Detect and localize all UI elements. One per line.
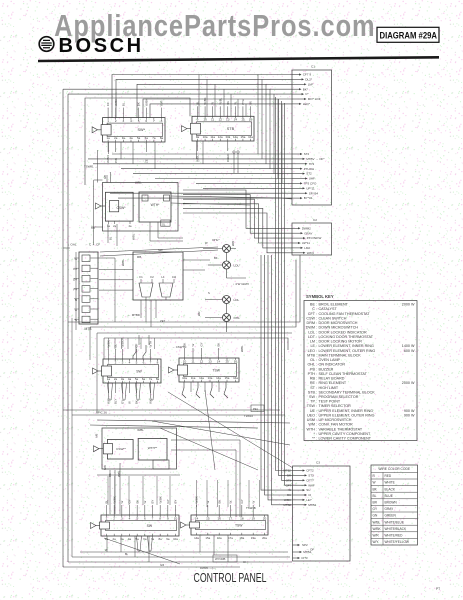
svg-text:BOSCH: BOSCH	[59, 35, 144, 57]
svg-text:6a: 6a	[142, 377, 146, 381]
svg-text:PT: PT	[436, 587, 440, 591]
svg-text:W: W	[229, 501, 233, 504]
svg-text:MTB4: MTB4	[303, 550, 311, 554]
svg-text:SU: SU	[306, 488, 310, 492]
svg-text:6: 6	[144, 516, 146, 520]
svg-text:WM :: WM :	[308, 423, 317, 427]
svg-text:323: 323	[160, 564, 165, 567]
svg-text:↓ OAL: ↓ OAL	[68, 243, 77, 247]
svg-text:SW*: SW*	[137, 128, 145, 132]
svg-text:3a: 3a	[122, 136, 126, 140]
svg-text:GRAY: GRAY	[304, 231, 312, 235]
svg-text:ST2: ST2	[304, 152, 310, 156]
svg-text:TSW :: TSW :	[307, 404, 317, 408]
svg-text:UPPER ELEMENT, INNER RING: UPPER ELEMENT, INNER RING	[319, 409, 374, 413]
svg-text:C3: C3	[316, 461, 320, 465]
svg-text:2a: 2a	[114, 136, 118, 140]
svg-text:BK: BK	[226, 101, 230, 105]
svg-text:WTH*: WTH*	[151, 203, 161, 207]
svg-text:MTB :: MTB :	[307, 353, 317, 357]
svg-text:OHL :: OHL :	[308, 363, 318, 367]
svg-text:2a: 2a	[113, 537, 117, 541]
svg-text:SECONDARY TERMINAL BLOCK: SECONDARY TERMINAL BLOCK	[319, 390, 376, 394]
svg-text:14: 14	[234, 118, 238, 122]
svg-text:BE :: BE :	[310, 303, 317, 307]
svg-text:C2: C2	[313, 218, 317, 222]
svg-text:W/BK: W/BK	[158, 496, 162, 503]
svg-text:8a: 8a	[160, 136, 164, 140]
svg-text:SP2: SP2	[302, 543, 308, 547]
svg-text:W/BL: W/BL	[132, 233, 136, 240]
svg-text:TEST POINT: TEST POINT	[319, 400, 341, 404]
svg-text:4: 4	[130, 119, 132, 123]
svg-text:RB :: RB :	[310, 377, 317, 381]
svg-text:D4: D4	[73, 277, 77, 281]
svg-text:GY: GY	[200, 342, 204, 346]
svg-text:BROIL ELEMENT: BROIL ELEMENT	[319, 303, 349, 307]
svg-text:OVEN LAMP: OVEN LAMP	[319, 358, 341, 362]
svg-text:15a: 15a	[241, 135, 246, 139]
svg-text:DOOR LOCKED INDICATOR: DOOR LOCKED INDICATOR	[319, 330, 368, 334]
svg-text:W: W	[373, 481, 376, 485]
svg-text:9: 9	[167, 516, 169, 520]
svg-text:4: 4	[129, 360, 131, 364]
svg-text:W/BL: W/BL	[137, 428, 144, 432]
svg-text:BK: BK	[217, 500, 221, 504]
svg-text:13: 13	[226, 118, 230, 122]
svg-text:SP/ B4: SP/ B4	[309, 191, 319, 195]
svg-text:600 W: 600 W	[404, 349, 415, 353]
svg-text:LE?: LE?	[306, 498, 312, 502]
svg-text:W/R: W/R	[373, 534, 380, 538]
svg-text:19: 19	[251, 516, 255, 520]
svg-text:C1: C1	[311, 65, 315, 69]
svg-text:MO* LDF: MO* LDF	[308, 97, 321, 101]
svg-text:S: S	[208, 291, 210, 295]
svg-text:W/R: W/R	[231, 241, 235, 246]
svg-text:1: 1	[106, 516, 108, 520]
svg-text:BUZZER: BUZZER	[319, 367, 334, 371]
svg-text:16a: 16a	[217, 536, 222, 540]
svg-text:LEO :: LEO :	[308, 349, 317, 353]
svg-text:6a: 6a	[145, 136, 149, 140]
svg-text:19a: 19a	[251, 536, 256, 540]
svg-text:DWM :: DWM :	[306, 326, 317, 330]
svg-text:ZE?: ZE?	[160, 319, 166, 323]
svg-text:10a: 10a	[182, 376, 187, 380]
svg-text:BK: BK	[135, 500, 139, 504]
svg-text:SW: SW	[158, 248, 163, 252]
svg-text:HIGH LIMIT: HIGH LIMIT	[319, 386, 339, 390]
svg-text:BLACK: BLACK	[385, 487, 396, 491]
svg-text:18: 18	[240, 516, 244, 520]
svg-text:4a: 4a	[129, 136, 133, 140]
svg-text:W/R: W/R	[103, 465, 107, 470]
svg-text:CSW*: CSW*	[117, 206, 127, 210]
svg-text:UPPER ELEMENT, OUTER RING: UPPER ELEMENT, OUTER RING	[319, 413, 375, 417]
svg-text:TP :: TP :	[310, 400, 317, 404]
svg-text:MTB2: MTB2	[308, 503, 316, 507]
svg-text:LOWER CAVITY COMPONENT: LOWER CAVITY COMPONENT	[319, 437, 372, 441]
svg-text:11: 11	[211, 118, 214, 122]
svg-text:WTH :: WTH :	[307, 427, 317, 431]
svg-text:BR: BR	[373, 501, 378, 505]
svg-text:LDL*: LDL*	[234, 263, 242, 267]
svg-text:W: W	[233, 102, 237, 105]
svg-text:W/BL: W/BL	[196, 155, 200, 162]
svg-text:BL: BL	[121, 102, 125, 106]
svg-text:20a: 20a	[262, 536, 267, 540]
svg-text:7a: 7a	[151, 537, 155, 541]
svg-text:BLUE: BLUE	[385, 494, 393, 498]
svg-text:CI: CI	[308, 493, 311, 497]
svg-text:BK: BK	[217, 343, 221, 347]
svg-text:W/BL: W/BL	[117, 470, 121, 477]
svg-text:11: 11	[191, 359, 194, 363]
svg-text:LDL :: LDL :	[308, 330, 317, 334]
svg-text:10: 10	[183, 359, 187, 363]
svg-text:T2W10: T2W10	[244, 414, 253, 418]
svg-text:LOWER ELEMENT, OUTER RING: LOWER ELEMENT, OUTER RING	[319, 349, 376, 353]
svg-text:W/BK: W/BK	[112, 496, 116, 503]
svg-text:2000 W: 2000 W	[402, 381, 415, 385]
svg-text:4a: 4a	[128, 377, 132, 381]
svg-text:WYCRB: WYCRB	[215, 557, 226, 561]
svg-text:BY: BY	[151, 500, 155, 504]
svg-text:ST2: ST2	[306, 172, 312, 176]
svg-text:W/BL: W/BL	[121, 259, 125, 266]
svg-text:SW :: SW :	[309, 395, 317, 399]
svg-text:RB: RB	[137, 255, 141, 259]
svg-text:* :: * :	[314, 432, 317, 436]
svg-text:CO: CO	[91, 226, 95, 230]
svg-text:SW: SW	[147, 524, 153, 528]
svg-text:TIMER SELECTOR: TIMER SELECTOR	[319, 404, 352, 408]
svg-text:GY: GY	[240, 499, 244, 503]
svg-text:DOWN MICROSWITCH: DOWN MICROSWITCH	[319, 326, 359, 330]
svg-text:4a: 4a	[128, 537, 132, 541]
svg-text:W/BN: W/BN	[106, 155, 110, 163]
svg-text:16: 16	[217, 516, 221, 520]
svg-text:BK*: BK*	[303, 87, 309, 91]
svg-text:7a: 7a	[152, 136, 156, 140]
svg-text:GY: GY	[121, 400, 125, 404]
svg-text:CH: CH	[172, 275, 176, 279]
svg-text:17: 17	[229, 516, 233, 520]
svg-text:UZ*11: UZ*11	[302, 241, 311, 245]
svg-text:5: 5	[136, 360, 138, 364]
svg-text:COOLING FAN THERMOSTAT: COOLING FAN THERMOSTAT	[319, 312, 371, 316]
svg-text:WIRE COLOR CODE: WIRE COLOR CODE	[378, 467, 410, 471]
svg-text:10: 10	[203, 118, 207, 122]
svg-text:MTB: MTB	[85, 327, 93, 331]
svg-text:F2: F2	[73, 267, 77, 271]
svg-text:2: 2	[115, 360, 117, 364]
svg-text:LM2: LM2	[304, 246, 310, 250]
svg-text:W: W	[191, 344, 195, 347]
svg-text:← MTBD: ← MTBD	[128, 313, 140, 317]
svg-text:4: 4	[129, 516, 131, 520]
svg-text:WHITE/BLACK: WHITE/BLACK	[385, 527, 407, 531]
svg-text:BL: BL	[109, 236, 113, 240]
svg-text:CI?3: CI?3	[301, 556, 308, 560]
svg-text:CATALYST: CATALYST	[319, 307, 338, 311]
svg-text:9a: 9a	[166, 537, 170, 541]
svg-text:W: W	[120, 501, 124, 504]
svg-text:16: 16	[249, 118, 253, 122]
svg-text:GREEN: GREEN	[385, 514, 397, 518]
svg-text:7: 7	[152, 516, 154, 520]
svg-text:→ CSWTH: → CSWTH	[172, 345, 186, 349]
svg-text:2: 2	[113, 516, 115, 520]
svg-text:CF: CF	[135, 343, 139, 347]
svg-text:W/BL: W/BL	[373, 520, 381, 524]
svg-text:MTBV → OF*: MTBV → OF*	[306, 157, 325, 161]
svg-text:1: 1	[107, 119, 109, 123]
svg-text:1a: 1a	[106, 136, 110, 140]
svg-text:LE :: LE :	[310, 344, 317, 348]
svg-text:7: 7	[153, 119, 155, 123]
svg-text:W: W	[211, 102, 215, 105]
svg-text:9: 9	[197, 118, 199, 122]
svg-text:3: 3	[122, 119, 124, 123]
svg-text:10a: 10a	[173, 537, 178, 541]
svg-text:DOOR MICROSWITCH: DOOR MICROSWITCH	[319, 321, 358, 325]
svg-text:LDT :: LDT :	[308, 335, 317, 339]
svg-text:10a: 10a	[203, 135, 208, 139]
svg-text:VARIABLE THERMOSTAT: VARIABLE THERMOSTAT	[319, 427, 363, 431]
svg-text:20: 20	[263, 516, 267, 520]
svg-text:CFT :: CFT :	[308, 312, 317, 316]
svg-text:UP*11: UP*11	[306, 186, 315, 190]
svg-text:PB :: PB :	[310, 367, 317, 371]
svg-text:17a: 17a	[228, 536, 233, 540]
svg-text:4/B: 4/B	[103, 175, 107, 179]
svg-text:W: W	[251, 501, 255, 504]
svg-text:UHF: UHF	[309, 177, 315, 181]
svg-text:LM*: LM*	[308, 82, 314, 86]
svg-text:WHITE/YELLOW: WHITE/YELLOW	[385, 540, 409, 544]
svg-text:PEL: PEL	[253, 407, 259, 411]
svg-text:BLY: BLY	[114, 399, 118, 404]
svg-text:GN: GN	[373, 514, 378, 518]
svg-text:ON INDICATOR: ON INDICATOR	[319, 363, 346, 367]
svg-text:RED: RED	[385, 474, 392, 478]
svg-text:W/BL: W/BL	[240, 345, 244, 352]
svg-text:12: 12	[218, 118, 222, 122]
svg-text:W/C: W/C	[149, 398, 153, 404]
svg-text:WHITE/RED: WHITE/RED	[385, 534, 404, 538]
svg-text:CF: CF	[106, 102, 110, 106]
svg-text:W/F3: W/F3	[307, 251, 314, 255]
svg-text:BK: BK	[137, 102, 141, 106]
svg-text:TSW: TSW	[235, 523, 243, 527]
svg-text:1a: 1a	[107, 377, 111, 381]
svg-text:LED*: LED*	[303, 102, 311, 106]
svg-text:GRAY: GRAY	[385, 507, 395, 511]
svg-text:3: 3	[122, 360, 124, 364]
svg-text:W/BK: W/BK	[144, 99, 148, 106]
svg-text:MAIN TERMINAL BLOCK: MAIN TERMINAL BLOCK	[319, 353, 362, 357]
svg-text:UPPER CAVITY COMPONENT: UPPER CAVITY COMPONENT	[319, 432, 371, 436]
svg-text:DL2*: DL2*	[305, 78, 313, 82]
svg-text:8: 8	[157, 360, 159, 364]
svg-text:OHL*: OHL*	[212, 238, 220, 242]
svg-text:USM :: USM :	[307, 418, 317, 422]
svg-text:15a: 15a	[225, 376, 230, 380]
svg-text:7a: 7a	[149, 377, 153, 381]
svg-text:5a: 5a	[136, 537, 140, 541]
svg-text:SP/C 2U →: SP/C 2U →	[96, 411, 111, 415]
svg-text:15: 15	[241, 118, 245, 122]
svg-text:WAF: WAF	[308, 483, 315, 487]
svg-text:BY: BY	[174, 500, 178, 504]
svg-text:CFT2: CFT2	[306, 469, 314, 473]
svg-text:5a: 5a	[137, 136, 141, 140]
svg-text:14: 14	[217, 359, 221, 363]
svg-text:GY: GY	[166, 499, 170, 503]
svg-text:8: 8	[161, 119, 163, 123]
svg-text:12: 12	[200, 359, 204, 363]
svg-text:W: W	[128, 401, 132, 404]
svg-text:UE :: UE :	[310, 409, 317, 413]
svg-text:11a: 11a	[191, 376, 196, 380]
svg-text:DOOR LOCKING MOTOR: DOOR LOCKING MOTOR	[319, 340, 363, 344]
svg-text:W: W	[206, 501, 210, 504]
svg-text:14a: 14a	[194, 536, 199, 540]
svg-text:STB :: STB :	[308, 390, 317, 394]
svg-text:C :: C :	[312, 307, 317, 311]
svg-text:CSW :: CSW :	[306, 316, 317, 320]
svg-text:1: 1	[108, 360, 110, 364]
svg-text:15a: 15a	[205, 536, 210, 540]
svg-text:OHL: OHL	[234, 316, 241, 320]
svg-text:2: 2	[115, 119, 117, 123]
svg-text:LM :: LM :	[310, 340, 317, 344]
svg-text:9a: 9a	[196, 135, 200, 139]
svg-text:PTHOH: PTHOH	[304, 167, 315, 171]
svg-text:16a: 16a	[248, 135, 253, 139]
svg-text:13a: 13a	[208, 376, 213, 380]
svg-text:F1: F1	[139, 275, 143, 279]
svg-text:WHITE: WHITE	[385, 481, 395, 485]
svg-text:P/N PEKW: P/N PEKW	[307, 236, 322, 240]
svg-text:ST :: ST :	[310, 386, 317, 390]
svg-text:L1: L1	[161, 275, 165, 279]
svg-text:WR: WR	[197, 311, 201, 316]
svg-text:SW: SW	[136, 369, 142, 373]
svg-text:** :: ** :	[312, 437, 317, 441]
svg-text:A/B: A/B	[95, 433, 99, 438]
svg-text:10: 10	[174, 516, 178, 520]
svg-text:W/BL: W/BL	[135, 181, 142, 185]
svg-text:ST3: ST3	[308, 474, 314, 478]
svg-text:F4: F4	[73, 288, 77, 292]
svg-text:16a: 16a	[233, 376, 238, 380]
svg-text:BL: BL	[373, 494, 377, 498]
svg-text:900 W: 900 W	[404, 409, 415, 413]
svg-text:7: 7	[150, 360, 152, 364]
svg-text:TSW81 →: TSW81 →	[84, 165, 97, 169]
svg-text:12a: 12a	[199, 376, 204, 380]
svg-text:TSW: TSW	[212, 368, 220, 372]
svg-text:CF7 9: CF7 9	[303, 73, 312, 77]
svg-text:BK: BK	[135, 400, 139, 404]
svg-text:3: 3	[121, 516, 123, 520]
svg-text:2000 W: 2000 W	[402, 303, 415, 307]
svg-text:W/BK: W/BK	[373, 527, 382, 531]
svg-text:CLEAN SWITCH: CLEAN SWITCH	[319, 316, 347, 320]
svg-text:13a: 13a	[225, 135, 230, 139]
svg-text:5: 5	[138, 119, 140, 123]
svg-text:CONV. FAN MOTOR: CONV. FAN MOTOR	[319, 423, 354, 427]
svg-text:OL :: OL :	[310, 358, 317, 362]
svg-text:W: W	[143, 501, 147, 504]
svg-text:RING ELEMENT: RING ELEMENT	[319, 381, 347, 385]
svg-text:↓ 4 W GRAY: ↓ 4 W GRAY	[233, 282, 249, 286]
svg-text:BK: BK	[214, 256, 218, 260]
svg-text:11a: 11a	[210, 135, 215, 139]
svg-text:BL: BL	[114, 344, 118, 348]
svg-text:BY*34: BY*34	[304, 196, 313, 200]
svg-text:TSW1B: TSW1B	[246, 506, 256, 510]
svg-text:CSW**: CSW**	[116, 447, 126, 451]
svg-text:14: 14	[195, 516, 199, 520]
svg-text:18a: 18a	[239, 536, 244, 540]
svg-text:16: 16	[234, 359, 238, 363]
svg-text:3a: 3a	[121, 377, 125, 381]
svg-text:ZE: ZE	[144, 159, 148, 163]
svg-text:UEO :: UEO :	[307, 413, 317, 417]
svg-text:STB: STB	[227, 127, 235, 131]
svg-text:6: 6	[145, 119, 147, 123]
svg-text:CONTROL PANEL: CONTROL PANEL	[194, 570, 267, 585]
svg-text:6a: 6a	[143, 537, 147, 541]
svg-text:6: 6	[143, 360, 145, 364]
svg-text:14a: 14a	[233, 135, 238, 139]
svg-text:WHITE/BLUE: WHITE/BLUE	[385, 520, 404, 524]
svg-text:W/BKA: W/BKA	[121, 338, 125, 347]
svg-text:1400 W: 1400 W	[402, 344, 415, 348]
svg-text:12a: 12a	[218, 135, 223, 139]
svg-text:15: 15	[206, 516, 210, 520]
svg-text:CFT?: CFT?	[306, 478, 314, 482]
svg-text:900 W: 900 W	[404, 413, 415, 417]
svg-text:SELF CLEAN THERMOSTAT: SELF CLEAN THERMOSTAT	[319, 372, 368, 376]
svg-text:PTH :: PTH :	[308, 372, 317, 376]
svg-text:BROWN: BROWN	[385, 501, 398, 505]
svg-text:F2: F2	[150, 275, 154, 279]
svg-text:8a: 8a	[159, 537, 163, 541]
svg-text:8: 8	[159, 516, 161, 520]
svg-text:LDL: LDL	[234, 298, 240, 302]
svg-text:W/R: W/R	[107, 398, 111, 404]
svg-text:13: 13	[208, 359, 212, 363]
svg-text:DWM2: DWM2	[302, 226, 311, 230]
svg-text:TP3 CFO: TP3 CFO	[304, 182, 317, 186]
svg-text:2a: 2a	[114, 377, 118, 381]
svg-text:WTH**: WTH**	[148, 446, 158, 450]
svg-text:DWM1 —|—: DWM1 —|—	[200, 566, 216, 570]
svg-text:8a: 8a	[156, 377, 160, 381]
svg-text:UP MICROSWITCH: UP MICROSWITCH	[319, 418, 352, 422]
svg-text:W/Y: W/Y	[373, 540, 380, 544]
svg-text:5: 5	[136, 516, 138, 520]
svg-text:← C ← CF: ← C ← CF	[85, 243, 100, 247]
svg-text:LOCKING DOOR THERMOSTAT: LOCKING DOOR THERMOSTAT	[319, 335, 374, 339]
svg-text:GY: GY	[128, 499, 132, 503]
svg-text:14a: 14a	[216, 376, 221, 380]
